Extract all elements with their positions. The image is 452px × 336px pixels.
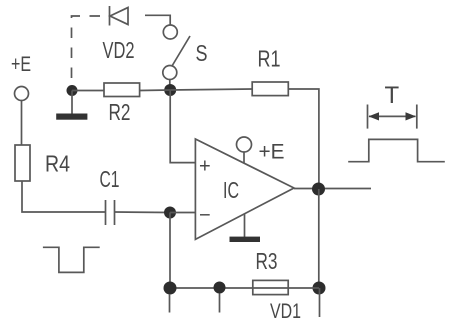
wire node C down to op-amp non-inverting input	[170, 90, 195, 163]
wire stub below node F	[219, 294, 221, 313]
wire +E terminal to R4 top	[21, 101, 23, 146]
switch S	[163, 25, 208, 80]
wire switch bottom terminal to node C	[169, 80, 171, 91]
wire node D down to node E	[318, 189, 320, 288]
wire node A to op-amp inverting input	[170, 212, 195, 214]
wire op-amp output	[294, 188, 371, 190]
svg-text:VD2: VD2	[103, 37, 135, 63]
node F (bottom middle junction)	[214, 282, 226, 294]
capacitor C1	[100, 166, 120, 225]
ground (left)	[56, 114, 87, 120]
node C (R2 / R1 / switch junction)	[164, 84, 176, 96]
node E (bottom right junction)	[313, 282, 326, 295]
resistor R1	[252, 46, 288, 96]
svg-text:+E: +E	[11, 53, 31, 76]
terminal +E (left supply)	[11, 53, 31, 101]
power terminal +E (op-amp)	[237, 137, 285, 164]
svg-text:C1: C1	[100, 166, 120, 192]
resistor R3	[253, 248, 288, 295]
svg-text:R1: R1	[258, 46, 281, 72]
wire stub below node E	[319, 288, 321, 317]
wire (dashed) node B up to diode VD2 cathode	[72, 16, 101, 85]
wire bottom rail	[170, 287, 319, 289]
dimension arrows for T	[368, 105, 417, 129]
svg-text:IC: IC	[223, 177, 239, 203]
node A (inverting input junction)	[164, 207, 176, 219]
svg-text:+E: +E	[259, 141, 285, 164]
wire node C to R1 left lead	[170, 89, 252, 90]
svg-text:S: S	[196, 40, 208, 66]
wire R2 right lead to node C	[140, 89, 171, 92]
node D (output junction)	[312, 183, 325, 196]
svg-text:R4: R4	[45, 151, 70, 177]
svg-text:+: +	[199, 156, 211, 178]
wire node B to ground	[71, 91, 73, 115]
wire node A down to bottom rail	[169, 213, 171, 289]
wire R1 right lead down to node D	[288, 89, 319, 189]
diode VD2	[103, 6, 135, 63]
resistor R4	[15, 145, 70, 181]
node B (ground junction left)	[67, 85, 78, 96]
wire stub below node A branch	[169, 294, 171, 313]
svg-text:−: −	[199, 205, 211, 227]
svg-text:R3: R3	[256, 248, 278, 274]
wire node B to R2 left lead	[72, 90, 104, 92]
ground (op-amp)	[230, 214, 261, 243]
svg-text:VD1: VD1	[270, 300, 301, 323]
resistor R2	[104, 83, 140, 125]
svg-text:R2: R2	[109, 99, 131, 125]
waveform: input trigger pulse (negative)	[43, 247, 100, 272]
op-amp U1 (IC)	[195, 139, 294, 239]
wire C1 right plate to inverting node	[115, 211, 171, 214]
wire to switch top terminal	[145, 15, 170, 25]
node G (bottom left junction)	[164, 282, 177, 295]
wire R4 bottom to C1 left plate	[22, 181, 105, 212]
waveform: output pulse (positive)	[348, 139, 445, 161]
svg-text:T: T	[385, 82, 400, 109]
